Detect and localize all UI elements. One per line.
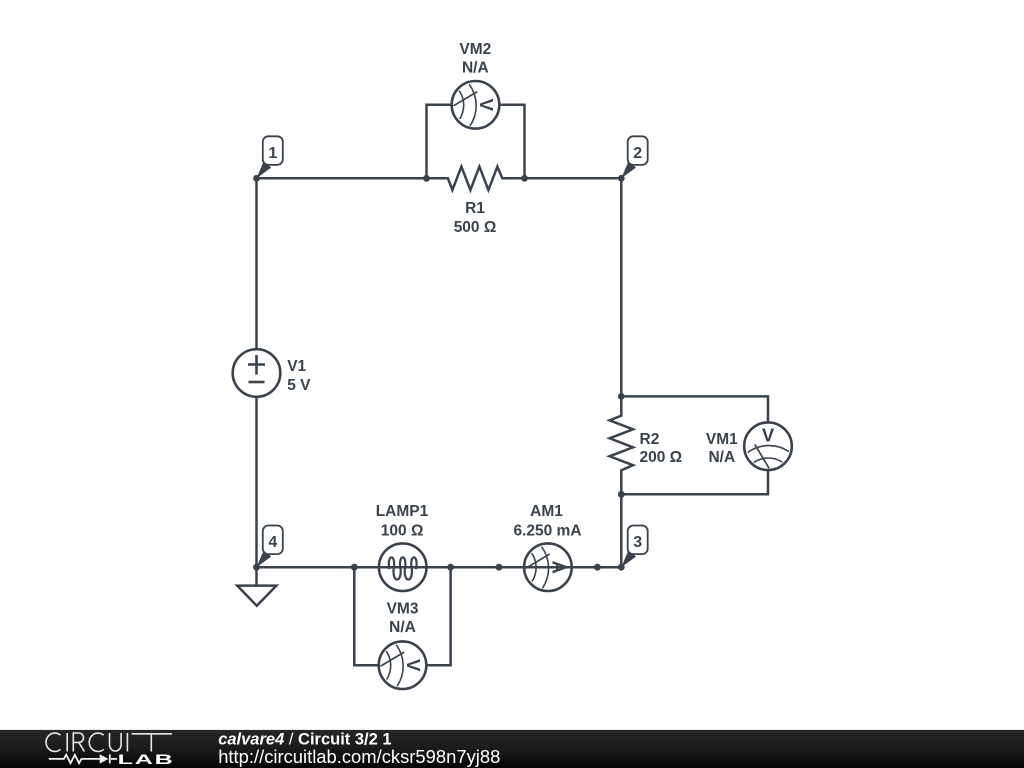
svg-text:A: A	[549, 561, 570, 574]
svg-text:R1: R1	[465, 200, 485, 217]
svg-text:V1: V1	[287, 358, 306, 375]
svg-text:N/A: N/A	[389, 619, 416, 636]
svg-text:LAB: LAB	[118, 752, 175, 767]
svg-text:N/A: N/A	[708, 449, 735, 466]
svg-text:VM1: VM1	[706, 431, 738, 448]
svg-text:R2: R2	[640, 431, 660, 448]
svg-text:N/A: N/A	[462, 60, 489, 77]
svg-text:V: V	[762, 425, 775, 446]
svg-text:VM3: VM3	[387, 601, 419, 618]
svg-text:VM2: VM2	[459, 41, 491, 58]
svg-text:500 Ω: 500 Ω	[454, 219, 497, 236]
svg-text:http://circuitlab.com/cksr598n: http://circuitlab.com/cksr598n7yj88	[218, 746, 500, 767]
svg-text:AM1: AM1	[530, 503, 563, 520]
svg-text:200 Ω: 200 Ω	[640, 449, 683, 466]
svg-text:100 Ω: 100 Ω	[381, 523, 424, 540]
svg-text:5 V: 5 V	[287, 377, 311, 394]
svg-text:1: 1	[268, 145, 277, 162]
svg-text:V: V	[403, 659, 424, 672]
svg-text:V: V	[476, 99, 497, 112]
svg-text:6.250 mA: 6.250 mA	[513, 523, 581, 540]
svg-text:4: 4	[268, 534, 277, 551]
svg-text:2: 2	[633, 145, 642, 162]
svg-text:3: 3	[633, 534, 642, 551]
svg-text:LAMP1: LAMP1	[376, 503, 429, 520]
